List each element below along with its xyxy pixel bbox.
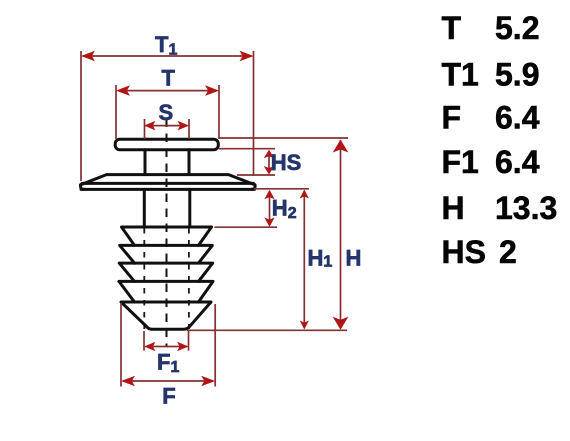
clip cap (head) outline <box>115 139 218 150</box>
svg-text:T: T <box>442 10 462 46</box>
dimension arrow S <box>146 125 188 127</box>
fir-tree fin 3 <box>119 263 213 281</box>
flange cone top <box>80 175 255 190</box>
dimension F1 extension line right <box>188 331 190 351</box>
extension line cap bottom to HS <box>219 148 275 150</box>
svg-text:HS: HS <box>271 150 302 175</box>
dimension arrow T <box>118 90 217 92</box>
dimension F1 extension line left <box>143 331 145 351</box>
dimension arrow T1 <box>83 55 252 57</box>
extension line tip bottom to H <box>187 329 347 331</box>
upper stem <box>145 150 189 175</box>
dimension F extension line right <box>214 304 216 387</box>
extension line flange top to HS <box>237 174 275 176</box>
hidden stem edge dashed right <box>188 228 190 329</box>
svg-text:F1: F1 <box>442 144 479 180</box>
fir-tree tip cone <box>121 302 211 329</box>
svg-text:T1: T1 <box>442 57 479 93</box>
dimension arrow F <box>123 380 213 382</box>
dimension arrow HS <box>268 151 270 173</box>
dimension arrow H2 <box>269 191 271 225</box>
dimension arrow H <box>340 140 342 328</box>
svg-text:F: F <box>162 384 175 409</box>
lower stem <box>144 189 190 226</box>
fir-tree fin 1 <box>122 227 212 245</box>
extension line fin1 top to H2 <box>215 226 278 228</box>
svg-text:2: 2 <box>499 234 517 270</box>
dimension S extension line left <box>144 119 146 139</box>
flange plate <box>81 183 255 189</box>
fir-tree fin 2 <box>120 245 213 263</box>
svg-text:5.9: 5.9 <box>495 57 539 93</box>
dimension T extension line left <box>115 85 117 139</box>
svg-text:H: H <box>346 246 362 271</box>
dimension S extension line right <box>188 119 190 139</box>
svg-text:13.3: 13.3 <box>495 190 557 226</box>
svg-text:6.4: 6.4 <box>495 144 540 180</box>
extension line flange bottom to H1 <box>254 188 309 190</box>
svg-text:HS: HS <box>442 234 486 270</box>
dimension T1 extension line left <box>80 51 82 181</box>
dimension arrow F1 <box>146 346 187 348</box>
dimension F extension line left <box>120 303 122 387</box>
dimension arrow H1 <box>303 191 305 328</box>
fir-tree fin 4 <box>119 281 213 302</box>
centerline (dashed axis) <box>166 119 168 348</box>
svg-text:5.2: 5.2 <box>495 10 539 46</box>
svg-text:6.4: 6.4 <box>495 100 540 136</box>
svg-text:H: H <box>442 190 465 226</box>
svg-text:S: S <box>159 100 174 125</box>
dimension T extension line right <box>218 85 220 139</box>
extension line cap top to H <box>219 137 348 139</box>
dimension T1 extension line right <box>253 51 255 176</box>
hidden stem edge dashed left <box>143 228 145 329</box>
svg-text:T: T <box>162 66 176 91</box>
svg-text:F: F <box>442 100 462 136</box>
